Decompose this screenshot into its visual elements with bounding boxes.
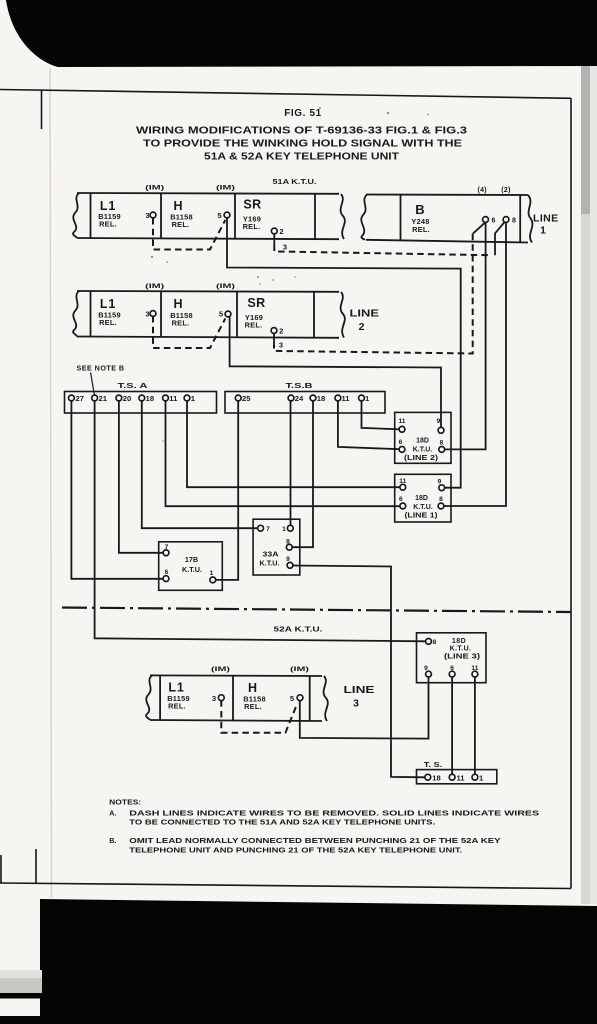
svg-text:18: 18 xyxy=(432,774,440,783)
svg-text:8: 8 xyxy=(440,440,444,447)
svg-text:21: 21 xyxy=(99,394,108,403)
svg-text:B: B xyxy=(415,202,424,217)
svg-text:8: 8 xyxy=(512,218,516,225)
svg-text:REL.: REL. xyxy=(172,319,190,328)
svg-text:(LINE 2): (LINE 2) xyxy=(404,455,438,462)
svg-text:1: 1 xyxy=(282,526,286,533)
svg-text:A.: A. xyxy=(109,809,116,818)
svg-text:1: 1 xyxy=(210,570,214,577)
svg-text:2: 2 xyxy=(279,327,283,336)
svg-text:FIG. 51: FIG. 51 xyxy=(284,108,322,119)
svg-text:3: 3 xyxy=(279,341,283,350)
svg-text:L1: L1 xyxy=(100,297,116,311)
svg-text:REL.: REL. xyxy=(172,220,190,229)
svg-text:25: 25 xyxy=(242,394,251,403)
svg-text:H: H xyxy=(173,199,182,213)
svg-text:6: 6 xyxy=(399,496,403,503)
svg-text:(LINE 1): (LINE 1) xyxy=(405,513,438,520)
svg-text:L1: L1 xyxy=(168,681,184,695)
svg-text:2: 2 xyxy=(279,227,283,236)
svg-text:(IM): (IM) xyxy=(216,283,235,290)
svg-text:(IM): (IM) xyxy=(290,666,309,673)
svg-text:SEE NOTE B: SEE NOTE B xyxy=(77,364,125,373)
svg-text:11: 11 xyxy=(169,394,178,403)
svg-text:LINE: LINE xyxy=(533,213,559,225)
svg-text:(IM): (IM) xyxy=(145,185,164,192)
svg-text:K.T.U.: K.T.U. xyxy=(450,646,472,653)
svg-text:TO PROVIDE THE WINKING HOLD SI: TO PROVIDE THE WINKING HOLD SIGNAL WITH … xyxy=(143,139,462,150)
svg-text:9: 9 xyxy=(437,418,441,425)
svg-text:OMIT LEAD NORMALLY CONNECTED B: OMIT LEAD NORMALLY CONNECTED BETWEEN PUN… xyxy=(129,836,501,845)
svg-text:11: 11 xyxy=(457,774,466,783)
svg-text:K.T.U.: K.T.U. xyxy=(260,559,280,568)
svg-text:18: 18 xyxy=(146,394,154,403)
svg-text:L1: L1 xyxy=(100,199,116,213)
svg-text:(IM): (IM) xyxy=(211,666,230,673)
svg-text:3: 3 xyxy=(145,310,149,319)
svg-text:7: 7 xyxy=(266,526,270,533)
svg-text:8: 8 xyxy=(439,496,443,503)
svg-text:T.S. A: T.S. A xyxy=(118,381,149,390)
svg-text:REL.: REL. xyxy=(99,220,117,229)
svg-text:REL.: REL. xyxy=(244,702,262,711)
svg-text:3: 3 xyxy=(145,211,149,220)
svg-text:11: 11 xyxy=(399,418,406,425)
svg-text:LINE: LINE xyxy=(344,684,375,696)
svg-text:6: 6 xyxy=(399,439,403,446)
svg-text:6: 6 xyxy=(492,218,496,225)
svg-text:51A K.T.U.: 51A K.T.U. xyxy=(273,177,317,186)
svg-text:H: H xyxy=(173,297,182,311)
svg-text:WIRING MODIFICATIONS OF T-6913: WIRING MODIFICATIONS OF T-69136-33 FIG.1… xyxy=(136,126,468,137)
svg-text:52A K.T.U.: 52A K.T.U. xyxy=(274,625,323,634)
svg-text:REL.: REL. xyxy=(245,321,263,330)
svg-text:(LINE 3): (LINE 3) xyxy=(444,654,480,661)
svg-text:K.T.U.: K.T.U. xyxy=(413,504,433,511)
svg-text:SR: SR xyxy=(243,198,261,212)
svg-text:T. S.: T. S. xyxy=(424,760,443,769)
svg-text:3: 3 xyxy=(212,694,216,703)
svg-text:H: H xyxy=(248,681,257,695)
svg-text:REL.: REL. xyxy=(99,318,117,327)
svg-text:REL.: REL. xyxy=(168,702,186,711)
svg-text:(IM): (IM) xyxy=(145,283,164,290)
svg-text:18D: 18D xyxy=(415,495,428,502)
svg-text:DASH LINES INDICATE WIRES TO B: DASH LINES INDICATE WIRES TO BE REMOVED.… xyxy=(129,809,539,818)
svg-text:K.T.U.: K.T.U. xyxy=(413,447,433,454)
svg-text:51A & 52A KEY TELEPHONE UNIT: 51A & 52A KEY TELEPHONE UNIT xyxy=(204,152,399,163)
svg-text:B.: B. xyxy=(109,836,116,845)
svg-text:(IM): (IM) xyxy=(216,185,235,192)
svg-text:REL.: REL. xyxy=(412,225,430,234)
svg-text:18D: 18D xyxy=(452,638,466,645)
svg-text:(4): (4) xyxy=(477,187,486,194)
svg-text:REL.: REL. xyxy=(243,222,261,231)
svg-text:SR: SR xyxy=(247,296,265,310)
svg-text:17B: 17B xyxy=(185,555,198,564)
svg-text:2: 2 xyxy=(359,321,365,333)
svg-text:TO BE CONNECTED TO THE 51A AND: TO BE CONNECTED TO THE 51A AND 52A KEY T… xyxy=(129,818,435,827)
svg-text:NOTES:: NOTES: xyxy=(109,798,141,807)
svg-text:3: 3 xyxy=(353,698,359,710)
svg-text:20: 20 xyxy=(123,394,131,403)
svg-text:TELEPHONE UNIT AND PUNCHING 21: TELEPHONE UNIT AND PUNCHING 21 OF THE 52… xyxy=(129,845,462,854)
svg-text:1: 1 xyxy=(540,225,546,237)
svg-text:24: 24 xyxy=(295,394,304,403)
svg-text:18: 18 xyxy=(317,394,325,403)
svg-text:K.T.U.: K.T.U. xyxy=(182,565,202,574)
svg-text:(2): (2) xyxy=(501,187,510,194)
svg-text:11: 11 xyxy=(342,394,351,403)
svg-text:3: 3 xyxy=(283,243,287,252)
svg-text:LINE: LINE xyxy=(350,308,380,320)
svg-text:8: 8 xyxy=(433,639,437,646)
svg-text:18D: 18D xyxy=(416,438,429,445)
svg-text:33A: 33A xyxy=(263,550,280,559)
svg-text:T.S.B: T.S.B xyxy=(286,381,314,390)
svg-text:27: 27 xyxy=(76,394,84,403)
